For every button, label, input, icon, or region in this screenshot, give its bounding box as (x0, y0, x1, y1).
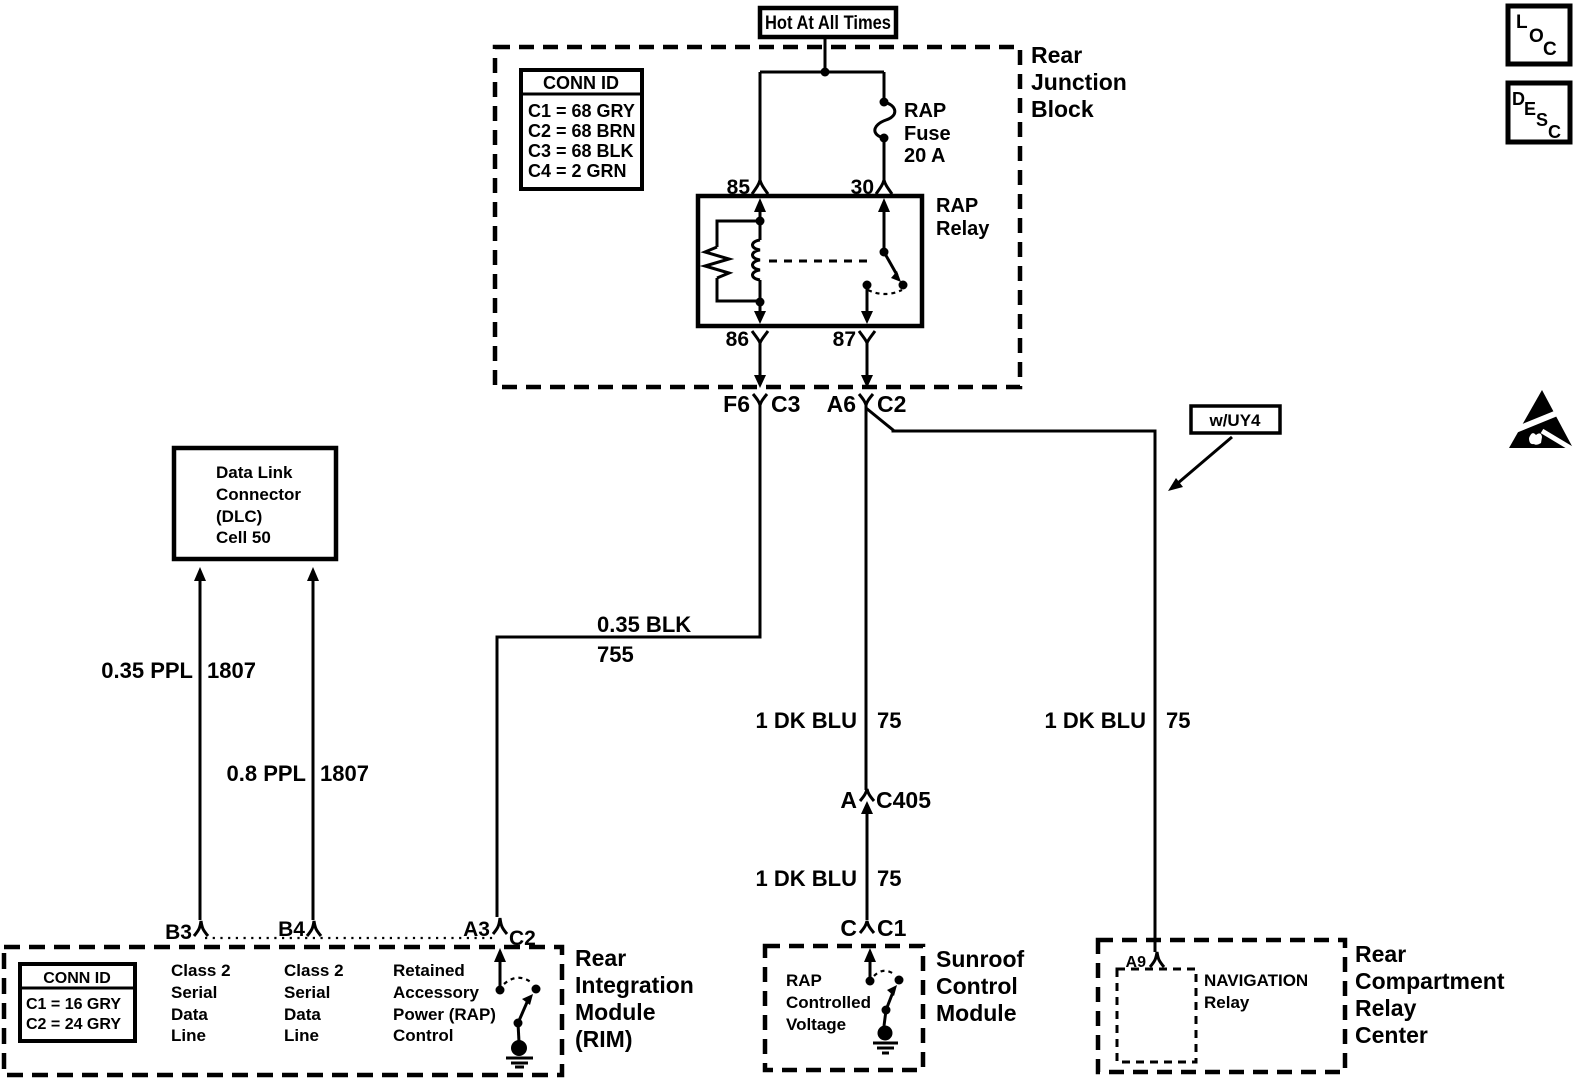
RAP relay box (698, 196, 922, 326)
wire B3 to DLC (194, 567, 206, 920)
svg-text:C1 = 16 GRY: C1 = 16 GRY (26, 996, 121, 1013)
svg-text:Module: Module (575, 999, 656, 1025)
wire F6 to RIM A3 (497, 405, 760, 917)
svg-text:Control: Control (393, 1026, 453, 1045)
relay switch lever (884, 252, 901, 282)
connector C C1 (sunroof) (840, 915, 906, 941)
w/UY4 tag (1191, 406, 1280, 433)
wire hot feed from battery label (824, 37, 827, 72)
svg-text:A: A (840, 787, 857, 813)
svg-text:Controlled: Controlled (786, 993, 871, 1012)
RIM label class 2 serial data line (B4) (284, 961, 344, 1045)
wire label 1 DK BLU 75 (rear compartment) (1045, 708, 1191, 733)
svg-text:Serial: Serial (284, 983, 330, 1002)
relay node bottom (756, 298, 765, 307)
pin 30 connector (851, 176, 892, 199)
svg-text:20 A: 20 A (904, 145, 946, 167)
svg-text:755: 755 (597, 642, 634, 667)
CONN ID table (RIM) (20, 964, 135, 1041)
svg-text:(RIM): (RIM) (575, 1026, 632, 1052)
wire to pin 85 (759, 72, 762, 180)
svg-text:C3 = 68 BLK: C3 = 68 BLK (528, 141, 634, 161)
pin A9 connector (1126, 952, 1164, 971)
sunroof ground (873, 1026, 898, 1054)
svg-text:Relay: Relay (1355, 995, 1417, 1021)
svg-text:C2 = 24 GRY: C2 = 24 GRY (26, 1016, 121, 1033)
svg-text:Voltage: Voltage (786, 1015, 846, 1034)
junction dot (821, 68, 830, 77)
svg-text:Integration: Integration (575, 972, 694, 998)
rear compartment title (1355, 941, 1505, 1048)
svg-text:Block: Block (1031, 96, 1094, 122)
svg-text:86: 86 (726, 328, 749, 351)
relay coil (753, 221, 761, 302)
svg-text:Fuse: Fuse (904, 123, 951, 145)
svg-text:C3: C3 (771, 391, 800, 417)
relay resistor (705, 221, 760, 301)
svg-text:S: S (1536, 110, 1548, 130)
relay node top (coil/resistor) (756, 217, 765, 226)
svg-text:Class 2: Class 2 (284, 961, 344, 980)
svg-text:Module: Module (936, 1000, 1017, 1026)
RIM title (575, 945, 694, 1052)
pin 87 connector (833, 328, 875, 352)
svg-text:C405: C405 (876, 787, 931, 813)
rear junction block dashed outline (495, 47, 1020, 387)
svg-text:Line: Line (171, 1026, 206, 1045)
svg-text:1 DK BLU: 1 DK BLU (1045, 708, 1146, 733)
svg-text:C1 = 68 GRY: C1 = 68 GRY (528, 101, 635, 121)
sunroof RAP switch (864, 948, 904, 1026)
svg-text:Data Link: Data Link (216, 463, 293, 482)
svg-text:Cell 50: Cell 50 (216, 528, 271, 547)
in-line connector A C405 (840, 787, 931, 920)
svg-text:Power (RAP): Power (RAP) (393, 1005, 496, 1024)
svg-text:RAP: RAP (904, 100, 946, 122)
svg-text:Rear: Rear (575, 945, 626, 971)
svg-text:Data: Data (284, 1005, 321, 1024)
svg-text:NAVIGATION: NAVIGATION (1204, 971, 1308, 990)
svg-text:87: 87 (833, 328, 856, 351)
sunroof title (936, 946, 1024, 1026)
svg-text:1 DK BLU: 1 DK BLU (756, 708, 857, 733)
RAP relay label (936, 195, 990, 240)
svg-text:L: L (1516, 12, 1528, 33)
svg-text:Class 2: Class 2 (171, 961, 231, 980)
sunroof control module dashed box (765, 946, 923, 1070)
svg-text:Relay: Relay (936, 218, 990, 240)
relay switch dashed arc (868, 290, 902, 294)
svg-text:A6: A6 (827, 391, 856, 417)
svg-text:0.8 PPL: 0.8 PPL (227, 761, 306, 786)
svg-text:CONN ID: CONN ID (43, 970, 111, 987)
RIM label class 2 serial data line (B3) (171, 961, 231, 1045)
sunroof label RAP controlled voltage (786, 971, 871, 1034)
svg-text:Serial: Serial (171, 983, 217, 1002)
relay coil exit arrow to pin 86 (754, 302, 766, 324)
svg-text:Line: Line (284, 1026, 319, 1045)
svg-text:Center: Center (1355, 1022, 1428, 1048)
svg-text:C4 = 2 GRN: C4 = 2 GRN (528, 161, 627, 181)
svg-text:Compartment: Compartment (1355, 968, 1505, 994)
pin A3 connector (463, 918, 536, 950)
data link connector DLC box (174, 448, 336, 559)
pin B3 connector (165, 921, 208, 944)
svg-text:Data: Data (171, 1005, 208, 1024)
svg-text:F6: F6 (723, 391, 750, 417)
svg-text:RAP: RAP (786, 971, 822, 990)
pin 85 connector (727, 176, 768, 199)
relay common contact dot (863, 281, 872, 290)
rear junction block title (1031, 42, 1127, 122)
svg-text:Hot At All Times: Hot At All Times (765, 13, 891, 34)
wire branch A6 to rear compartment (866, 408, 1155, 952)
wire label 1 DK BLU 75 (sunroof upper) (756, 708, 902, 733)
relay common exit arrow to pin 87 (861, 285, 873, 324)
CONN ID table (junction block) (521, 70, 642, 189)
wire label 0.35 BLK 755 (597, 612, 691, 667)
svg-text:0.35 BLK: 0.35 BLK (597, 612, 691, 637)
svg-text:1 DK BLU: 1 DK BLU (756, 866, 857, 891)
svg-text:0.35 PPL: 0.35 PPL (101, 658, 193, 683)
svg-text:B3: B3 (165, 921, 192, 944)
RIM ground (506, 1040, 533, 1067)
svg-text:(DLC): (DLC) (216, 507, 262, 526)
ESD warning symbol (1509, 390, 1576, 452)
svg-text:Sunroof: Sunroof (936, 946, 1024, 972)
wire horizontal splitter (760, 71, 884, 74)
LOC tab (1508, 6, 1570, 64)
svg-text:1807: 1807 (320, 761, 369, 786)
wire pin 86 to F6 (754, 352, 766, 388)
connector F6 C3 (723, 391, 800, 417)
svg-text:C: C (1543, 39, 1557, 60)
connector A6 C2 (827, 391, 907, 417)
relay switch arm entry arrow from pin 30 (878, 198, 890, 252)
svg-text:C: C (840, 915, 857, 941)
relay switch lever end dot (899, 281, 908, 290)
svg-text:75: 75 (877, 708, 901, 733)
pin 86 connector (726, 328, 768, 352)
svg-text:Rear: Rear (1355, 941, 1406, 967)
svg-text:Accessory: Accessory (393, 983, 480, 1002)
svg-text:Relay: Relay (1204, 993, 1250, 1012)
svg-text:75: 75 (1166, 708, 1190, 733)
navigation relay inner dashed box (1117, 969, 1308, 1062)
svg-text:75: 75 (877, 866, 901, 891)
svg-text:Connector: Connector (216, 485, 301, 504)
w/UY4 arrow (1168, 437, 1232, 491)
svg-text:Junction: Junction (1031, 69, 1127, 95)
svg-text:C2 = 68 BRN: C2 = 68 BRN (528, 121, 636, 141)
wire B4 to DLC (307, 567, 319, 920)
fuse RAP Fuse 20 A (875, 98, 951, 181)
svg-text:Retained: Retained (393, 961, 465, 980)
pin B4 connector (278, 918, 321, 941)
wire label 1 DK BLU 75 (sunroof lower) (756, 866, 902, 891)
svg-text:Rear: Rear (1031, 42, 1082, 68)
svg-text:1807: 1807 (207, 658, 256, 683)
wire to fuse (883, 72, 886, 101)
connector dotted line B3-B4-A3 (205, 937, 494, 939)
rear integration module dashed box (4, 947, 562, 1075)
relay switch pivot dot (880, 248, 889, 257)
relay coil branch entry arrow (754, 198, 766, 221)
RIM label retained accessory power control (393, 961, 496, 1045)
svg-text:C: C (1548, 122, 1561, 142)
relay actuation dashed link (769, 260, 871, 263)
svg-text:C2: C2 (877, 391, 906, 417)
wire label 0.8 PPL 1807 (227, 761, 369, 786)
svg-text:E: E (1524, 99, 1536, 119)
wire A6 down to C405 (865, 405, 868, 790)
rear compartment relay center dashed box (1098, 940, 1345, 1072)
wire label 0.35 PPL 1807 (101, 658, 256, 683)
svg-text:Control: Control (936, 973, 1018, 999)
power label Hot At All Times (760, 8, 896, 37)
svg-text:CONN ID: CONN ID (543, 73, 619, 93)
wire pin 87 to A6 (861, 352, 873, 388)
svg-text:C1: C1 (877, 915, 907, 941)
svg-text:O: O (1529, 26, 1544, 47)
DESC tab (1508, 83, 1570, 142)
svg-text:RAP: RAP (936, 195, 978, 217)
svg-text:w/UY4: w/UY4 (1208, 411, 1261, 430)
RIM RAP switch (494, 948, 541, 1042)
